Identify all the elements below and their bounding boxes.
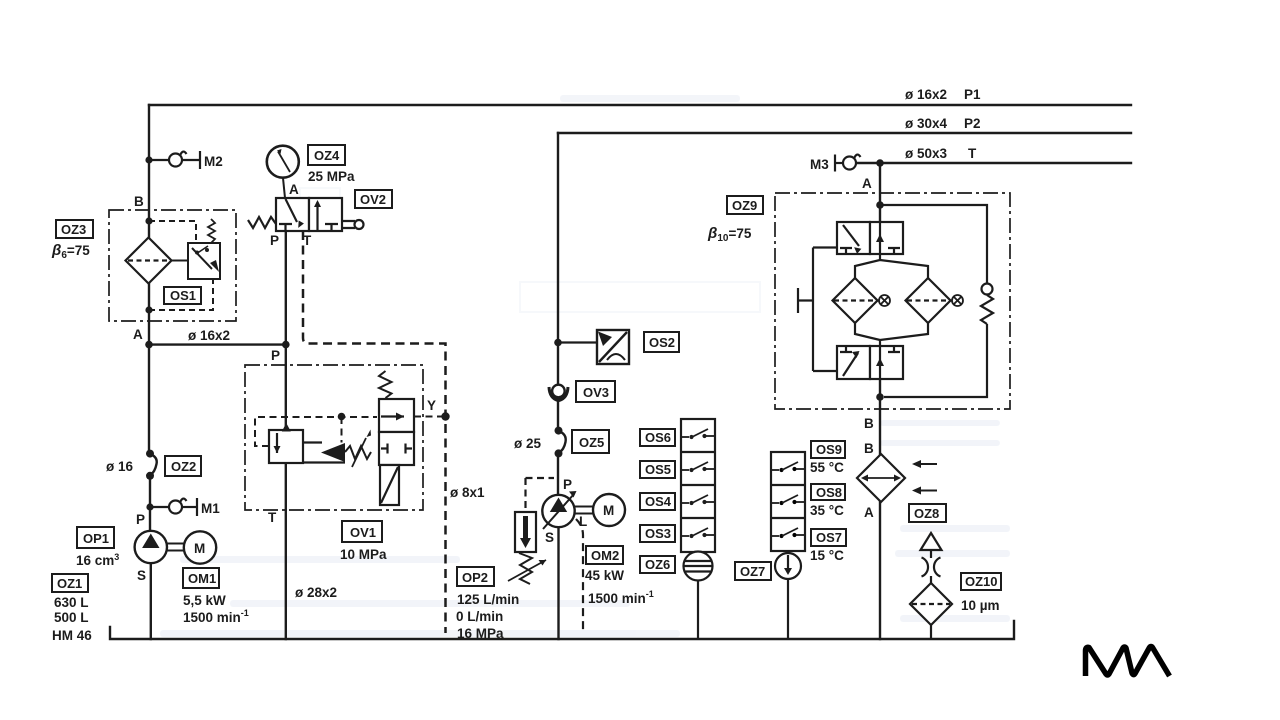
valve OV2 (3/2 gauge isolator)	[248, 198, 364, 231]
svg-text:OS2: OS2	[649, 335, 675, 350]
wire OZ9 riser from T	[879, 163, 881, 639]
shaft OP1-OM1	[167, 544, 184, 551]
label OZ8	[909, 504, 946, 522]
label OZ5	[572, 430, 609, 453]
svg-text:35 °C: 35 °C	[810, 503, 844, 518]
wire A to OV1 riser (diam 16x2)	[149, 343, 286, 345]
svg-text:OS3: OS3	[645, 526, 671, 541]
breather OZ10	[921, 533, 942, 639]
svg-text:500 L: 500 L	[54, 610, 89, 625]
svg-text:S: S	[137, 568, 146, 583]
filter OZ3 element	[126, 238, 172, 284]
svg-text:HM 46: HM 46	[52, 628, 92, 643]
pump OP1	[135, 531, 167, 563]
coupling OZ5	[559, 431, 566, 453]
svg-text:1500 min-1: 1500 min-1	[183, 608, 249, 625]
svg-text:0 L/min: 0 L/min	[456, 609, 503, 624]
svg-text:ø 16: ø 16	[106, 459, 134, 474]
svg-text:P2: P2	[964, 116, 981, 131]
changeover valve bottom (OZ9)	[837, 346, 903, 379]
svg-text:16 MPa: 16 MPa	[457, 626, 504, 641]
svg-text:55 °C: 55 °C	[810, 460, 844, 475]
ghost bleed-through artifacts	[160, 95, 1010, 637]
svg-text:OS6: OS6	[645, 430, 671, 445]
svg-text:OM2: OM2	[591, 548, 619, 563]
labels OS9 OS8 OS7 with temps	[811, 441, 845, 458]
svg-text:OS4: OS4	[645, 494, 672, 509]
svg-text:P1: P1	[964, 87, 981, 102]
duplex filter OZ9 dash-dot enclosure	[775, 193, 1010, 409]
svg-text:OZ9: OZ9	[732, 198, 757, 213]
svg-text:B: B	[134, 194, 144, 209]
compensator cylinder OP2	[508, 478, 554, 584]
label OZ2	[165, 456, 201, 476]
svg-text:OS5: OS5	[645, 462, 671, 477]
svg-text:ø 50x3: ø 50x3	[905, 146, 948, 161]
svg-text:OV3: OV3	[583, 385, 609, 400]
svg-text:OP2: OP2	[462, 570, 488, 585]
svg-text:5,5 kW: 5,5 kW	[183, 593, 226, 608]
svg-text:630 L: 630 L	[54, 595, 89, 610]
svg-text:M: M	[603, 503, 614, 518]
svg-text:OV1: OV1	[350, 525, 376, 540]
svg-text:OZ5: OZ5	[579, 435, 604, 450]
filter unit OZ3 dash-dot enclosure	[109, 210, 236, 321]
svg-text:P: P	[136, 512, 145, 527]
svg-text:M1: M1	[201, 501, 220, 516]
label OS1	[164, 287, 201, 304]
svg-text:OS7: OS7	[816, 530, 842, 545]
svg-text:OS1: OS1	[170, 288, 196, 303]
blocked P in left position	[279, 224, 292, 231]
svg-text:ø 16x2: ø 16x2	[188, 328, 230, 343]
wire middle riser P2 branch	[557, 133, 560, 639]
svg-text:OZ7: OZ7	[740, 564, 765, 579]
pressure switch stack OS3-OS6	[681, 419, 715, 552]
test point M2	[149, 151, 200, 169]
svg-text:A: A	[864, 505, 874, 520]
pump OP2 variable	[542, 495, 574, 527]
wire OV2 T drain dashed to Y and tank	[303, 231, 446, 633]
motor OM1	[184, 531, 216, 563]
test point M1	[150, 498, 197, 516]
svg-text:OZ3: OZ3	[61, 222, 86, 237]
svg-text:Y: Y	[427, 398, 436, 413]
label OZ3	[56, 220, 93, 238]
svg-text:25 MPa: 25 MPa	[308, 169, 355, 184]
svg-text:10 µm: 10 µm	[961, 598, 1000, 613]
svg-text:16 cm3: 16 cm3	[76, 552, 119, 568]
svg-text:OM1: OM1	[188, 571, 216, 586]
relief valve OV1 main stage	[269, 430, 371, 467]
filter element left (OZ9)	[833, 278, 880, 323]
label OZ9	[727, 196, 763, 214]
svg-text:M2: M2	[204, 154, 223, 169]
label OZ1 (tank)	[52, 574, 88, 592]
spring below	[519, 553, 532, 584]
svg-text:ø 16x2: ø 16x2	[905, 87, 947, 102]
svg-text:T: T	[268, 510, 277, 525]
level gauge OZ6	[684, 552, 713, 640]
svg-text:L: L	[579, 514, 587, 529]
svg-text:OZ4: OZ4	[314, 148, 340, 163]
svg-text:OZ10: OZ10	[965, 574, 998, 589]
svg-text:ø 8x1: ø 8x1	[450, 485, 485, 500]
spring adjustable	[345, 446, 371, 459]
svg-text:P: P	[270, 233, 279, 248]
wire bottom tank line	[110, 621, 1014, 639]
air flow arrows OZ8	[914, 464, 937, 491]
svg-text:15 °C: 15 °C	[810, 548, 844, 563]
label OV3	[576, 381, 615, 402]
svg-text:B: B	[864, 441, 874, 456]
left position: A->T diagonal	[286, 199, 298, 222]
svg-text:ø 25: ø 25	[514, 436, 542, 451]
svg-text:OV2: OV2	[360, 192, 386, 207]
svg-text:125 L/min: 125 L/min	[457, 592, 519, 607]
svg-text:ø 28x2: ø 28x2	[295, 585, 337, 600]
wire P2 bus	[558, 132, 1131, 134]
spring left	[248, 217, 276, 228]
pressure gauge OZ4	[267, 146, 299, 198]
label OZ4	[308, 145, 345, 165]
manifold top (OZ9)	[855, 254, 928, 278]
label OM2	[586, 546, 623, 564]
manifold bottom (OZ9)	[855, 323, 928, 346]
relief valve OV1 dash-dot enclosure	[245, 365, 423, 510]
check valve OV3	[549, 387, 568, 401]
svg-text:OZ8: OZ8	[914, 506, 939, 521]
svg-text:OZ1: OZ1	[57, 576, 82, 591]
svg-text:B: B	[864, 416, 874, 431]
svg-text:ø 30x4: ø 30x4	[905, 116, 948, 131]
label OZ7	[735, 562, 771, 580]
label OV1	[342, 521, 382, 542]
motor OM2	[593, 494, 625, 526]
svg-text:OS8: OS8	[816, 485, 842, 500]
logo mark MA	[1086, 647, 1170, 677]
svg-text:T: T	[303, 233, 312, 248]
thermometer OZ7	[775, 553, 801, 639]
svg-text:P: P	[563, 477, 572, 492]
svg-text:T: T	[968, 146, 977, 161]
bypass branch OZ9 (right side)	[880, 205, 993, 397]
label OS2	[644, 332, 679, 352]
label OP1	[77, 527, 114, 548]
wire T bus	[858, 162, 1131, 164]
wire riser OV2-P to OV1 to tank	[285, 231, 287, 639]
test point M3	[835, 155, 861, 172]
svg-text:A: A	[862, 176, 872, 191]
filter element right (OZ9)	[906, 278, 953, 323]
svg-text:1500 min-1: 1500 min-1	[588, 589, 654, 606]
svg-text:OS9: OS9	[816, 442, 842, 457]
svg-text:M3: M3	[810, 157, 829, 172]
svg-text:S: S	[545, 530, 554, 545]
blocked T right position	[325, 224, 338, 231]
label OP2	[457, 567, 494, 586]
pressure switch OS1	[149, 219, 220, 310]
temperature switch stack OS7-OS9	[771, 452, 805, 551]
svg-text:P: P	[271, 348, 280, 363]
label OM1	[183, 568, 219, 588]
drain L dashed	[576, 519, 583, 633]
wire left riser	[149, 105, 151, 639]
svg-text:M: M	[194, 541, 205, 556]
lever handle (OZ9)	[798, 248, 837, 372]
right position: pass arrow up	[316, 202, 318, 230]
svg-text:OZ2: OZ2	[171, 459, 196, 474]
coupling OZ2	[150, 454, 157, 476]
svg-text:10 MPa: 10 MPa	[340, 547, 387, 562]
svg-text:45 kW: 45 kW	[585, 568, 624, 583]
shaft OP2-OM2	[575, 507, 593, 514]
label OV2	[355, 190, 392, 208]
svg-text:OZ6: OZ6	[645, 557, 670, 572]
changeover valve top (OZ9)	[837, 222, 903, 254]
wire P1 bus	[149, 104, 1131, 106]
flow indicator OS2	[558, 341, 597, 343]
svg-text:OP1: OP1	[83, 531, 109, 546]
svg-text:A: A	[133, 327, 143, 342]
svg-text:A: A	[289, 182, 299, 197]
pilot solenoid valve (vent) of OV1	[379, 371, 414, 505]
pilot dashed lines OV1	[255, 417, 446, 447]
bus labels	[905, 87, 981, 161]
labels OS6 OS5 OS4 OS3 OZ6	[640, 429, 675, 446]
cooler OZ8	[857, 454, 905, 502]
push button right	[342, 221, 355, 228]
label OZ10	[961, 573, 1001, 590]
